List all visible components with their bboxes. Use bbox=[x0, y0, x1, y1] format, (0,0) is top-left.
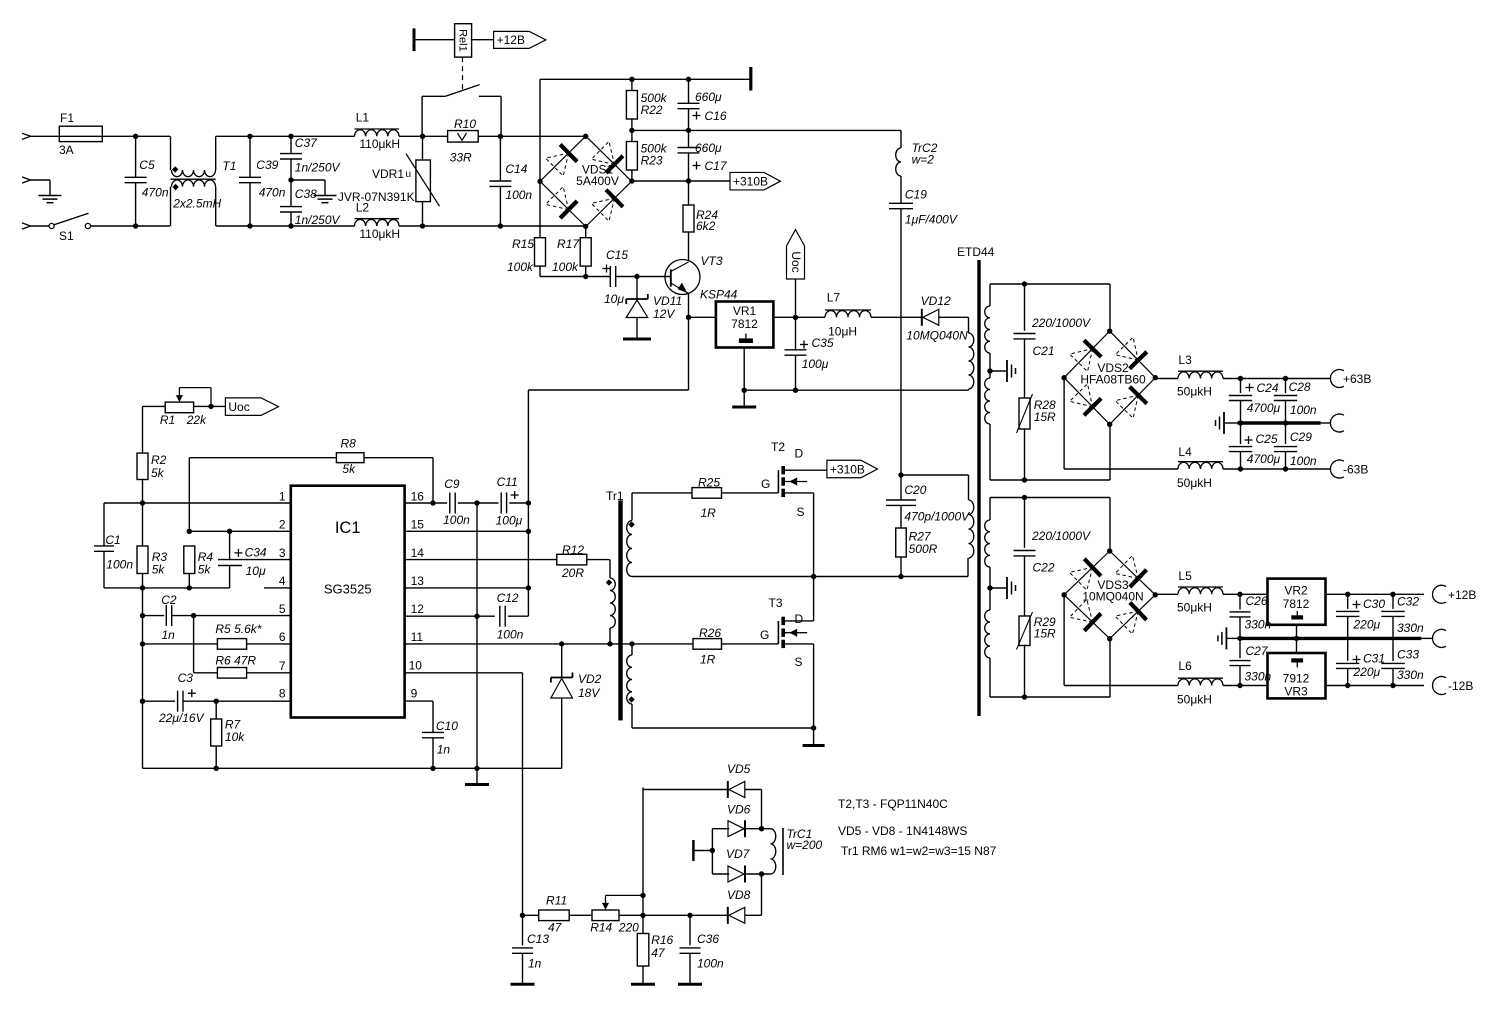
svg-text:1μF/400V: 1μF/400V bbox=[905, 213, 958, 227]
wire bbox=[900, 209, 902, 475]
svg-text:110μkH: 110μkH bbox=[359, 137, 400, 151]
svg-text:C19: C19 bbox=[905, 188, 927, 202]
node bbox=[1107, 422, 1112, 427]
junction bbox=[247, 134, 252, 139]
junction bbox=[140, 613, 145, 618]
capacitor C5 plates bbox=[125, 176, 147, 178]
junction bbox=[1390, 592, 1395, 597]
arcs bbox=[969, 333, 974, 389]
wire bbox=[458, 502, 499, 504]
wire bbox=[508, 615, 529, 617]
node bbox=[1061, 375, 1066, 380]
zener diode VD2 bbox=[551, 677, 573, 679]
svg-text:220/1000V: 220/1000V bbox=[1031, 529, 1091, 543]
junction bbox=[1294, 636, 1299, 641]
wire bbox=[103, 503, 105, 546]
svg-text:100μ: 100μ bbox=[496, 514, 523, 528]
junction bbox=[1237, 592, 1242, 597]
ground bbox=[642, 966, 644, 984]
wire bbox=[745, 914, 762, 916]
junction bbox=[559, 641, 564, 646]
wire bbox=[523, 914, 539, 916]
wire bbox=[631, 119, 633, 130]
svg-text:IC1: IC1 bbox=[335, 519, 361, 537]
junction bbox=[474, 766, 479, 771]
svg-text:VDR1: VDR1 bbox=[372, 167, 404, 181]
svg-text:50μkH: 50μkH bbox=[1177, 601, 1212, 615]
junction bbox=[1283, 376, 1288, 381]
wire bottom rail bbox=[143, 767, 562, 769]
ground bbox=[49, 180, 51, 196]
wire bbox=[1223, 468, 1331, 470]
junction bbox=[214, 699, 219, 704]
diode VD12 bbox=[921, 309, 923, 326]
wire bbox=[399, 225, 500, 227]
junction bbox=[133, 134, 138, 139]
zener diode VD11 bbox=[626, 298, 648, 300]
capacitor C20 bbox=[886, 499, 916, 501]
wire bbox=[795, 279, 797, 317]
wire bbox=[142, 406, 144, 453]
wire bbox=[1024, 556, 1026, 616]
junction bbox=[1237, 636, 1242, 641]
wire bbox=[989, 353, 991, 378]
wire pin5 bbox=[143, 615, 165, 617]
wire collector bbox=[688, 232, 690, 262]
wire bbox=[688, 153, 690, 181]
svg-text:15R: 15R bbox=[1034, 410, 1056, 424]
svg-text:1n: 1n bbox=[162, 628, 176, 642]
junction bbox=[987, 368, 992, 373]
junction bbox=[759, 871, 764, 876]
capacitor C16 bbox=[678, 102, 700, 104]
junction bbox=[1238, 420, 1243, 425]
wire bbox=[31, 225, 50, 227]
switch S1 bbox=[49, 223, 54, 228]
svg-text:VD11: VD11 bbox=[653, 294, 682, 308]
junction bbox=[640, 893, 645, 898]
transformer ETD44 core bbox=[977, 260, 980, 716]
wire bbox=[215, 187, 217, 226]
wire bbox=[636, 277, 638, 300]
junction bbox=[987, 585, 992, 590]
transistor VT3 bbox=[665, 260, 700, 295]
wire bbox=[967, 558, 969, 577]
node bridge top bbox=[583, 134, 588, 139]
arcs bbox=[985, 610, 990, 658]
net flag Uoc bbox=[787, 230, 805, 280]
transformer Tr1 winding w1 bbox=[610, 578, 615, 628]
regulator VR1 bbox=[716, 302, 774, 348]
svg-text:5k: 5k bbox=[152, 563, 166, 577]
resistor R22 bbox=[626, 91, 637, 120]
junction bbox=[526, 585, 531, 590]
svg-text:500R: 500R bbox=[909, 542, 938, 556]
wire bbox=[989, 284, 991, 306]
wire bbox=[31, 135, 60, 137]
junction bbox=[1390, 683, 1395, 688]
svg-text:220μ: 220μ bbox=[1353, 665, 1381, 679]
plus bbox=[693, 115, 701, 117]
svg-text:50μkH: 50μkH bbox=[1177, 476, 1212, 490]
resistor R2 bbox=[137, 453, 148, 479]
wire bbox=[745, 828, 771, 830]
wire bbox=[215, 746, 217, 768]
wire VR3 gnd bbox=[1296, 638, 1298, 653]
wire bbox=[1224, 422, 1238, 424]
transformer TrC1 winding arcs bbox=[771, 829, 776, 874]
svg-text:100n: 100n bbox=[497, 628, 524, 642]
wire bbox=[989, 424, 991, 480]
transistor T3 bbox=[777, 621, 779, 644]
ground bbox=[1006, 370, 1008, 372]
wire top rail s1 bbox=[990, 283, 1110, 285]
phase dot bbox=[606, 579, 612, 585]
wire bbox=[291, 179, 325, 181]
wire bbox=[968, 317, 970, 333]
regulator VR2 bbox=[1268, 579, 1326, 625]
svg-text:+12B: +12B bbox=[1448, 588, 1476, 602]
junction bbox=[1238, 376, 1243, 381]
wire bbox=[500, 225, 585, 227]
bridge rectifier VDS1 bbox=[540, 136, 586, 181]
svg-text:T2,T3 - FQP11N40C: T2,T3 - FQP11N40C bbox=[838, 797, 948, 811]
ground bbox=[522, 953, 524, 984]
wire bbox=[290, 212, 292, 226]
wire bbox=[642, 915, 644, 933]
arcs bbox=[985, 520, 990, 567]
wire bbox=[539, 266, 541, 276]
junction bbox=[686, 128, 691, 133]
svg-text:100μ: 100μ bbox=[802, 357, 829, 371]
wire gnd column bbox=[476, 503, 478, 768]
wire bbox=[170, 136, 172, 170]
svg-text:7: 7 bbox=[279, 659, 286, 673]
wire VR2 out bbox=[1326, 593, 1425, 595]
wire bbox=[989, 658, 991, 697]
svg-text:220/1000V: 220/1000V bbox=[1031, 316, 1091, 330]
potentiometer R1 bbox=[165, 402, 193, 413]
svg-text:8: 8 bbox=[279, 687, 286, 701]
node bridge bottom bbox=[583, 224, 588, 229]
capacitor C3 bbox=[177, 691, 179, 712]
wire rail2 bbox=[632, 129, 901, 131]
wire bbox=[432, 738, 434, 769]
junction bbox=[526, 500, 531, 505]
wire bbox=[989, 567, 991, 610]
wire pin6 bbox=[143, 643, 218, 645]
wire vcc column bbox=[527, 503, 529, 616]
wire bbox=[711, 829, 713, 874]
svg-text:C24: C24 bbox=[1257, 381, 1279, 395]
wire bbox=[472, 39, 494, 41]
wire bbox=[1024, 646, 1026, 698]
junction bbox=[140, 585, 145, 590]
wire bbox=[216, 225, 291, 227]
wire bbox=[103, 551, 105, 588]
wire bbox=[249, 183, 251, 226]
capacitor C26 bbox=[1230, 611, 1251, 613]
wire bbox=[509, 502, 528, 504]
ground bbox=[689, 953, 691, 984]
pot wiper bbox=[602, 903, 609, 910]
junction bbox=[1283, 420, 1288, 425]
wire bbox=[631, 644, 633, 655]
resistor R16 bbox=[637, 934, 649, 967]
svg-text:R16: R16 bbox=[651, 933, 673, 947]
wire bbox=[249, 136, 251, 177]
svg-text:Rel1: Rel1 bbox=[457, 29, 469, 52]
svg-text:100n: 100n bbox=[1290, 403, 1317, 417]
wire pin10 bbox=[405, 672, 523, 674]
wire source bbox=[783, 643, 813, 645]
svg-text:L1: L1 bbox=[356, 111, 370, 125]
svg-text:7812: 7812 bbox=[731, 317, 758, 331]
svg-text:L5: L5 bbox=[1178, 569, 1192, 583]
wire bbox=[527, 390, 529, 503]
wire +310V rail bbox=[632, 180, 730, 182]
terminal +12B bbox=[1433, 585, 1446, 603]
wire bbox=[813, 493, 815, 621]
svg-text:T3: T3 bbox=[769, 596, 783, 610]
svg-text:Tr1: Tr1 bbox=[606, 489, 624, 503]
chassis bar bbox=[749, 67, 752, 91]
plus bbox=[1353, 604, 1361, 606]
wire bbox=[247, 672, 291, 674]
svg-text:R15: R15 bbox=[512, 237, 534, 251]
wire bbox=[364, 457, 433, 459]
node bridge left bbox=[537, 179, 542, 184]
wire bbox=[1285, 401, 1287, 424]
wire VR1 gnd bbox=[743, 348, 745, 391]
wire bbox=[1024, 284, 1026, 331]
wire bbox=[215, 136, 217, 170]
wire bbox=[1063, 378, 1065, 469]
wire bbox=[689, 316, 716, 318]
junction bbox=[686, 178, 691, 183]
wire bbox=[1392, 594, 1394, 609]
wire bbox=[229, 566, 231, 588]
junction bbox=[288, 134, 293, 139]
junction bbox=[629, 641, 634, 646]
junction bbox=[1238, 466, 1243, 471]
wire bbox=[745, 873, 771, 875]
svg-text:10: 10 bbox=[409, 659, 423, 673]
plus bbox=[800, 344, 808, 346]
svg-text:VD6: VD6 bbox=[727, 803, 751, 817]
wire bbox=[135, 136, 137, 177]
wire bbox=[91, 225, 171, 227]
node mid C37 C38 bbox=[288, 177, 293, 182]
svg-text:C12: C12 bbox=[497, 591, 519, 605]
transformer Tr1 winding w2 bbox=[627, 521, 632, 577]
wire L5 row bbox=[1155, 593, 1178, 595]
junction bbox=[898, 472, 903, 477]
transformer TrC1 core bbox=[782, 828, 784, 875]
svg-text:6: 6 bbox=[279, 630, 286, 644]
resistor R15 bbox=[535, 238, 546, 266]
wire bbox=[1347, 638, 1349, 661]
transformer Tr1 core bbox=[618, 500, 622, 720]
svg-text:VR1: VR1 bbox=[733, 304, 757, 318]
svg-text:-63B: -63B bbox=[1343, 463, 1368, 477]
svg-text:330n: 330n bbox=[1397, 621, 1424, 635]
svg-text:5: 5 bbox=[279, 602, 286, 616]
svg-text:C38: C38 bbox=[295, 187, 317, 201]
wire bbox=[188, 458, 190, 532]
wire drain bbox=[783, 469, 827, 471]
svg-text:S1: S1 bbox=[59, 229, 74, 243]
phase dot bbox=[628, 521, 634, 527]
capacitor C37 bbox=[280, 153, 302, 155]
node AC input line bbox=[22, 133, 31, 139]
svg-text:VD2: VD2 bbox=[578, 672, 602, 686]
wire bbox=[290, 136, 292, 153]
wire bbox=[631, 79, 633, 90]
plus bbox=[1353, 659, 1361, 661]
svg-text:HFA08TB60: HFA08TB60 bbox=[1080, 373, 1146, 387]
svg-text:2x2.5mH: 2x2.5mH bbox=[172, 197, 221, 211]
wire bbox=[642, 788, 644, 916]
ground bbox=[636, 318, 638, 340]
wire bbox=[1240, 423, 1242, 444]
wire bottom rail s1 bbox=[990, 479, 1110, 481]
wire bbox=[587, 559, 610, 561]
svg-text:R26: R26 bbox=[699, 626, 721, 640]
svg-text:C9: C9 bbox=[444, 477, 460, 491]
svg-text:16: 16 bbox=[411, 489, 425, 503]
svg-text:ETD44: ETD44 bbox=[957, 245, 995, 259]
wire bbox=[609, 560, 611, 578]
svg-text:R12: R12 bbox=[562, 543, 584, 557]
wire bbox=[1392, 616, 1394, 638]
capacitor C30 bbox=[1336, 610, 1359, 612]
junction bbox=[687, 913, 692, 918]
resistor R10 bbox=[448, 131, 479, 143]
net flag Uoc bbox=[225, 398, 278, 416]
terminal common 12B bbox=[1433, 629, 1446, 647]
capacitor C11 bbox=[500, 493, 502, 514]
wire bbox=[616, 276, 671, 278]
svg-text:15R: 15R bbox=[1034, 627, 1056, 641]
wire bbox=[414, 39, 455, 41]
wire bbox=[290, 159, 292, 180]
inductor L2 bbox=[355, 219, 400, 226]
wire VD6 row bbox=[712, 828, 729, 830]
wire pin11 bbox=[405, 643, 693, 645]
wire bbox=[814, 576, 968, 578]
svg-text:S: S bbox=[795, 655, 803, 669]
svg-text:7912: 7912 bbox=[1283, 672, 1310, 686]
svg-text:VD5 - VD8 - 1N4148WS: VD5 - VD8 - 1N4148WS bbox=[838, 824, 967, 838]
svg-text:10MQ040N: 10MQ040N bbox=[1082, 590, 1143, 604]
fuse F1 bbox=[59, 126, 102, 141]
wire bbox=[528, 389, 688, 391]
resistor R23 bbox=[626, 142, 637, 171]
svg-text:C26: C26 bbox=[1246, 594, 1268, 608]
wire bbox=[135, 183, 137, 226]
svg-text:C25: C25 bbox=[1256, 432, 1278, 446]
wire bbox=[247, 643, 291, 645]
wire pin8 bbox=[143, 700, 176, 702]
junction bbox=[759, 826, 764, 831]
junction bbox=[140, 500, 145, 505]
svg-text:C36: C36 bbox=[697, 932, 719, 946]
wire bbox=[1239, 666, 1241, 686]
wire bbox=[939, 316, 969, 318]
inductor L6 bbox=[1178, 679, 1223, 686]
svg-text:JVR-07N391K: JVR-07N391K bbox=[338, 190, 415, 204]
plus bbox=[603, 268, 611, 270]
wire bbox=[31, 179, 51, 181]
junction bbox=[187, 585, 192, 590]
node AC input line2 bbox=[22, 223, 31, 229]
wire VR1 out bbox=[773, 316, 825, 318]
svg-text:R8: R8 bbox=[341, 437, 357, 451]
capacitor C22 bbox=[1014, 550, 1036, 552]
wire bbox=[194, 405, 226, 407]
wire pin13 bbox=[405, 587, 529, 589]
node bridge right bbox=[629, 178, 634, 183]
capacitor C2 bbox=[165, 605, 167, 626]
bridge rectifier VDS3 bbox=[1064, 551, 1110, 595]
wire bbox=[142, 701, 144, 768]
wire bbox=[229, 531, 231, 559]
wire mid rail thick bbox=[1238, 421, 1321, 424]
inductor L4 bbox=[1178, 462, 1223, 469]
junction bbox=[1345, 683, 1350, 688]
varistor VDR1 bbox=[416, 160, 431, 202]
resistor R5 bbox=[217, 639, 246, 650]
diode VD6 bbox=[744, 820, 746, 837]
plus bbox=[1245, 439, 1253, 441]
junction bbox=[1022, 477, 1027, 482]
wire bbox=[1240, 379, 1242, 394]
wire bbox=[290, 180, 292, 207]
pot wiper bbox=[176, 395, 183, 402]
wire pin9 bbox=[405, 700, 433, 702]
capacitor C27 bbox=[1230, 660, 1251, 662]
svg-text:C3: C3 bbox=[178, 671, 194, 685]
wire bbox=[569, 914, 592, 916]
svg-text:220μ: 220μ bbox=[1353, 618, 1381, 632]
svg-text:C2: C2 bbox=[161, 593, 177, 607]
svg-text:4: 4 bbox=[279, 574, 286, 588]
svg-text:470n: 470n bbox=[142, 186, 169, 200]
svg-text:C34: C34 bbox=[245, 546, 267, 560]
wire bbox=[478, 135, 586, 137]
wire bbox=[142, 574, 144, 702]
wire pin7 bbox=[194, 672, 218, 674]
svg-text:T2: T2 bbox=[771, 440, 785, 454]
svg-text:VD5: VD5 bbox=[727, 762, 751, 776]
capacitor C33 bbox=[1381, 662, 1404, 664]
svg-text:C21: C21 bbox=[1033, 344, 1055, 358]
wire pin15 bbox=[405, 530, 529, 532]
arcs bbox=[985, 306, 990, 353]
svg-text:100n: 100n bbox=[106, 558, 133, 572]
wire bbox=[632, 727, 814, 729]
wire bbox=[990, 370, 1007, 372]
wire mid rail thick bbox=[1240, 637, 1422, 640]
svg-text:100n: 100n bbox=[505, 188, 532, 202]
capacitor C24 bbox=[1229, 395, 1252, 397]
wire bbox=[631, 130, 633, 141]
wire bbox=[499, 136, 501, 181]
junction bbox=[811, 574, 816, 579]
transformer T1 winding b bbox=[172, 180, 216, 187]
capacitor C35 bbox=[785, 349, 807, 351]
